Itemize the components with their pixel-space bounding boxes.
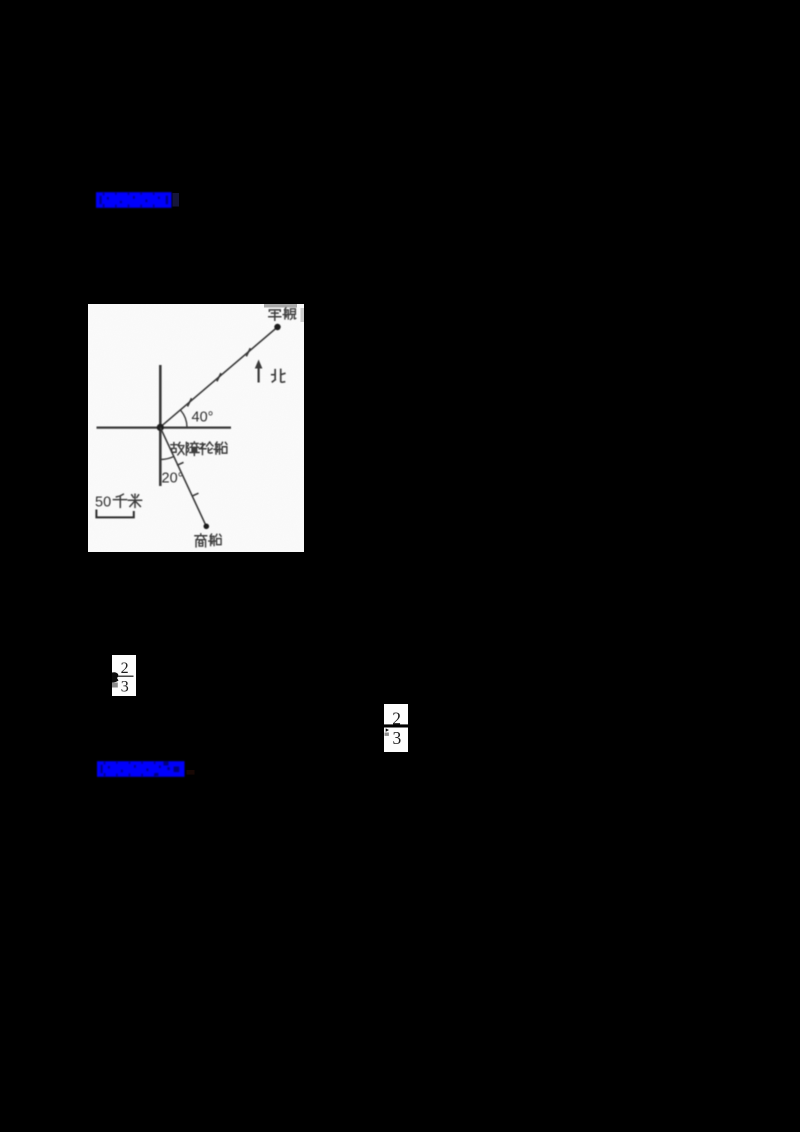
svg-text:50: 50 [95,495,111,511]
label 军舰 [269,310,281,320]
partial black glyph at left edge [112,672,119,682]
blue section header 1 [92,188,202,214]
scale text 千米 [113,494,126,507]
20 degree arc [160,457,174,460]
white photo background [88,304,304,552]
center dot (故障轮船 position) [157,424,164,431]
label 北 [272,369,285,382]
gray strip artifact top edge [264,304,297,308]
40 degree arc [181,410,187,427]
warship endpoint dot [274,324,280,330]
merchant endpoint dot [204,524,210,530]
line to warship [160,327,278,427]
label 商船 [195,534,207,547]
vertical axis line [159,365,162,486]
gray artifact square [112,683,118,688]
line to merchant ship [160,427,206,526]
svg-text:40°: 40° [192,410,214,426]
fraction 2/3 (first) [112,655,136,696]
svg-text:2: 2 [121,660,129,677]
blue section header 2 [93,757,213,783]
scale bracket [96,510,133,518]
svg-text:20°: 20° [162,471,184,487]
left edge artifacts [385,728,388,731]
black band fraction bar [384,724,408,727]
tick 2 on warship line [217,373,221,381]
diagram image: white box [88,304,304,552]
fraction bar [118,675,134,677]
svg-text:3: 3 [392,728,401,748]
tick 3 on warship line [246,348,250,356]
fraction 2/3 (second) [384,704,408,752]
tick 2 on merchant line [192,493,199,496]
north arrow [258,367,260,383]
tick 1 on warship line [188,398,192,406]
tick 1 on merchant line [177,462,184,465]
label 故障轮船 [171,442,184,454]
svg-text:3: 3 [121,679,129,696]
horizontal axis line [97,427,232,429]
